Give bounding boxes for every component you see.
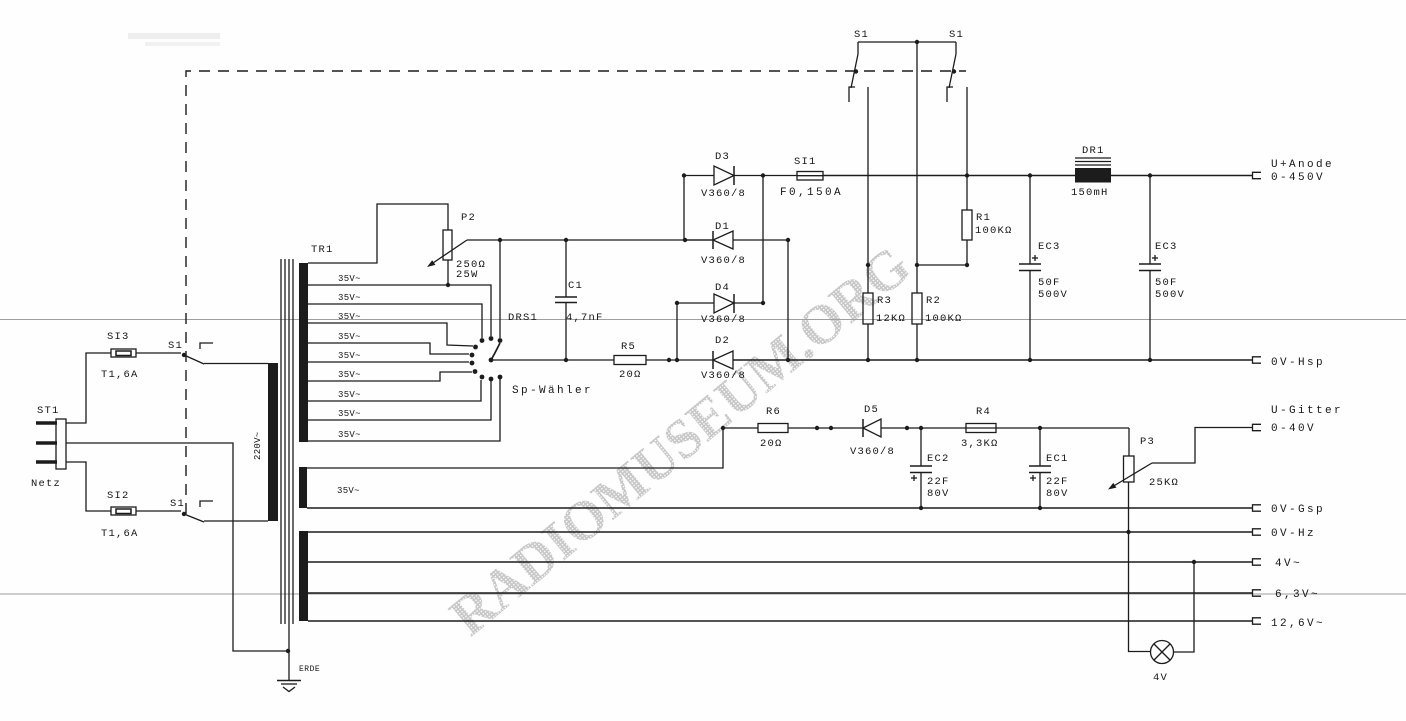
capacitor EC2 [910,426,950,510]
wire P3 bottom through rails to lamp [1129,482,1151,652]
svg-text:Netz: Netz [31,478,61,490]
diode D4 [677,282,763,326]
label 220V~ [253,431,263,460]
svg-text:35V~: 35V~ [338,312,361,322]
selector DRS1 wiper blade [489,343,500,362]
svg-text:V360/8: V360/8 [701,370,746,382]
wire 4V rail [308,561,1252,563]
wire S1 centre bar through R2 to 0V [916,42,918,293]
svg-text:SI3: SI3 [107,331,130,343]
svg-text:50F: 50F [1155,277,1178,289]
labels 35V~ taps [338,274,361,440]
svg-text:S1: S1 [854,29,869,41]
svg-text:500V: 500V [1155,289,1185,301]
lamp 4V [1151,641,1174,685]
svg-text:S1: S1 [168,340,183,352]
svg-text:50F: 50F [1038,277,1061,289]
switch S1 (primary top) [168,340,213,364]
wire ST1 bottom pin to SI2 [66,462,111,511]
svg-text:35V~: 35V~ [338,430,361,440]
capacitor EC3 right [1139,173,1185,362]
wire S1 gang top bar [858,41,956,43]
wire tap4 [308,343,469,354]
capacitor EC3 left [1019,173,1068,362]
svg-text:D1: D1 [715,221,730,233]
wire D3 cathode to D4 cathode [762,176,764,304]
svg-text:R5: R5 [621,341,636,353]
svg-text:S1: S1 [170,498,185,510]
transformer heater secondary winding bar [299,531,308,621]
wire tap6 [308,372,472,381]
wire 0V-Hz rail [308,531,1252,533]
svg-text:F0,150A: F0,150A [780,187,843,199]
svg-text:P3: P3 [1140,436,1155,448]
wire ST1 top pin to SI3 [66,353,111,423]
wire 12,6V rail [308,620,1252,622]
scan fold line lower [0,593,1406,595]
svg-text:T1,6A: T1,6A [101,528,139,540]
svg-text:220V~: 220V~ [253,431,263,460]
svg-text:35V~: 35V~ [338,409,361,419]
capacitor C1 [555,240,604,360]
wire selector wiper to R5 [491,359,614,361]
wire tap9 [308,379,500,441]
svg-text:DRS1: DRS1 [508,312,538,324]
svg-text:SI1: SI1 [794,156,817,168]
wire SI1 to U+Anode rail [823,175,1252,177]
node earth junction [286,649,290,653]
switch S1 (HT right) [947,29,964,102]
svg-text:SI2: SI2 [107,490,130,502]
potentiometer P3 [1108,428,1179,490]
resistor R4 [961,406,999,450]
fuse SI3 [101,331,139,381]
switch S1 (primary bottom) [170,498,213,522]
wire R6 to D5 [788,427,863,429]
terminal 4V~ [1253,558,1303,570]
svg-text:V360/8: V360/8 [701,188,746,200]
svg-text:35V~: 35V~ [338,332,361,342]
svg-text:V360/8: V360/8 [701,314,746,326]
wire P2 bottom to tap1 [447,260,449,285]
terminal 12,6V~ [1253,618,1326,630]
wire S1 left contact through R3 to 0V [867,87,869,293]
switch S1 (HT left) [849,29,869,102]
svg-text:EC3: EC3 [1038,241,1061,253]
rheostat P2 [427,212,486,281]
wire D1 anode down to 0V rail [787,240,789,360]
wire ST1 middle pin to earth [66,443,288,651]
svg-text:35V~: 35V~ [338,370,361,380]
svg-text:D5: D5 [864,404,879,416]
svg-text:22F: 22F [1046,476,1069,488]
svg-text:RADIOMUSEUM.ORG: RADIOMUSEUM.ORG [439,234,922,648]
svg-text:U+Anode: U+Anode [1271,159,1334,171]
dashed mechanical linkage of switch S1 [186,71,966,514]
svg-text:25KΩ: 25KΩ [1149,477,1179,489]
svg-text:100KΩ: 100KΩ [925,313,963,325]
wire bias winding top to R6 [307,428,758,468]
diode D1 [685,221,788,267]
svg-text:12KΩ: 12KΩ [876,313,906,325]
svg-text:35V~: 35V~ [338,274,361,284]
svg-text:V360/8: V360/8 [701,255,746,267]
svg-text:D4: D4 [715,282,730,294]
svg-text:150mH: 150mH [1071,187,1109,199]
svg-text:4V~: 4V~ [1275,558,1302,570]
svg-text:35V~: 35V~ [338,293,361,303]
svg-text:S1: S1 [949,29,964,41]
svg-text:100KΩ: 100KΩ [975,225,1013,237]
core line to ground [288,259,290,680]
wire tap7 [308,380,481,401]
wire 0V-Gsp rail [307,507,1252,509]
connector ST1 [31,405,66,490]
svg-text:0V-Gsp: 0V-Gsp [1271,504,1325,516]
svg-text:500V: 500V [1038,289,1068,301]
wire P3 wiper to U-Gitter terminal [1152,428,1252,464]
svg-text:P2: P2 [461,212,476,224]
resistor R1 [962,210,1013,240]
terminal 0V-Gsp [1253,504,1326,516]
svg-text:80V: 80V [927,488,950,500]
selector DRS1 contacts [470,336,503,381]
resistor R3 [863,293,906,325]
svg-text:R2: R2 [926,295,941,307]
choke DR1 [1071,145,1111,199]
fuse SI2 [101,490,139,540]
svg-text:35V~: 35V~ [338,390,361,400]
svg-text:TR1: TR1 [311,244,334,256]
svg-text:EC1: EC1 [1046,453,1069,465]
wire switch to primary bottom [204,520,268,522]
svg-text:D3: D3 [715,151,730,163]
svg-text:C1: C1 [568,280,583,292]
svg-text:ERDE: ERDE [299,665,320,674]
svg-text:DR1: DR1 [1082,145,1105,157]
wire 6,3V rail [308,592,1252,594]
diode D2 [701,335,1252,382]
svg-text:R4: R4 [976,406,991,418]
svg-text:0V-Hsp: 0V-Hsp [1271,357,1325,369]
svg-text:V360/8: V360/8 [850,446,895,458]
terminal 0V-Hsp [1253,357,1326,369]
svg-text:25W: 25W [456,269,479,281]
svg-text:R6: R6 [766,406,781,418]
svg-text:0-450V: 0-450V [1271,172,1325,184]
resistor R5 [614,341,646,381]
svg-text:3,3KΩ: 3,3KΩ [961,438,999,450]
transformer TR1 primary winding bar [268,363,278,521]
fuse SI1 [780,156,843,199]
svg-text:80V: 80V [1046,488,1069,500]
svg-text:20Ω: 20Ω [619,369,642,381]
svg-text:12,6V~: 12,6V~ [1271,618,1325,630]
wire tap3 [308,323,473,346]
ground ERDE [277,665,320,692]
svg-text:0-40V: 0-40V [1271,423,1316,435]
svg-text:D2: D2 [715,335,730,347]
wire switch to primary top [204,363,268,365]
svg-text:EC3: EC3 [1155,241,1178,253]
wire tap5 [308,361,469,363]
wire tap1 [308,285,491,336]
wire R1 bottom jog to R2 top [917,240,967,265]
svg-text:4,7nF: 4,7nF [566,312,604,324]
resistor R6 [758,406,788,450]
svg-text:0V-Hz: 0V-Hz [1271,528,1316,540]
terminal 0V-Hz [1253,528,1317,540]
wire R5 to D2 [646,359,713,361]
wire tap8 [308,381,491,420]
transformer bias secondary winding bar [299,467,307,508]
wire HV secondary top to P2 loop [308,204,448,263]
svg-text:U-Gitter: U-Gitter [1271,405,1343,417]
transformer HV secondary winding bar [299,263,308,442]
svg-text:22F: 22F [927,476,950,488]
transformer core lines [281,259,293,624]
capacitor EC1 [1029,426,1069,510]
scan fold line upper [0,319,1406,321]
wire SI3 to switch [136,352,181,354]
svg-text:ST1: ST1 [37,405,60,417]
svg-text:35V~: 35V~ [337,486,360,496]
terminal U-Gitter [1253,405,1344,435]
svg-text:R3: R3 [877,295,892,307]
diode D5 [850,404,1129,458]
svg-text:EC2: EC2 [927,453,950,465]
svg-text:T1,6A: T1,6A [101,369,139,381]
wire node A : P2 wiper rail y=240 [467,239,713,241]
terminal U+Anode [1253,159,1335,184]
wire D3 anode to node A rail [683,176,685,241]
svg-text:35V~: 35V~ [338,351,361,361]
wire selector feed from node A [499,240,501,338]
resistor R2 [912,293,963,325]
terminal 6,3V~ [1253,589,1321,601]
svg-text:Sp-Wähler: Sp-Wähler [512,385,593,397]
svg-text:R1: R1 [976,212,991,224]
wire S1 right contact to U+Anode rail [966,87,968,210]
wire D4 anode to D2 rail [676,303,678,360]
svg-text:20Ω: 20Ω [760,438,783,450]
diode D3 [684,151,797,200]
wire lamp to 4V rail [1174,562,1195,652]
wire tap2 [308,304,482,338]
scan smudge top-left [128,33,220,46]
svg-text:4V: 4V [1153,672,1168,684]
svg-text:6,3V~: 6,3V~ [1275,589,1320,601]
wire SI2 to switch [136,510,181,512]
